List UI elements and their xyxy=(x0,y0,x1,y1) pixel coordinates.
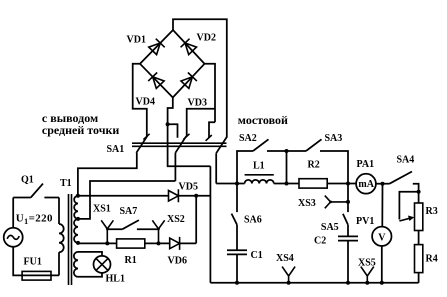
svg-text:SA7: SA7 xyxy=(120,206,138,217)
node XS3 junction xyxy=(346,200,350,204)
node XS2 stem junction xyxy=(157,241,161,245)
wire SA6 to C1 xyxy=(236,225,238,251)
node C1 on rail xyxy=(235,281,239,285)
wire VD5 cathode to negative link xyxy=(178,195,210,197)
switch SA1 lever pole2 xyxy=(175,136,186,153)
capacitor C1 xyxy=(227,250,247,254)
switch SA1 lever pole3 xyxy=(216,137,227,154)
wire PV1 to bottom rail xyxy=(381,246,383,283)
inductor L1 core xyxy=(245,174,274,176)
svg-text:XS1: XS1 xyxy=(93,204,111,215)
svg-text:SA2: SA2 xyxy=(239,133,257,144)
svg-text:R3: R3 xyxy=(426,206,438,217)
node bypass mid xyxy=(285,149,289,153)
fuse FU1 xyxy=(22,271,51,280)
node T1 bottom terminal xyxy=(76,241,80,245)
node junction below bridge xyxy=(166,122,170,126)
transformer T1 secondary upper half xyxy=(74,196,78,219)
svg-text:мостовой: мостовой xyxy=(238,113,288,127)
svg-text:VD5: VD5 xyxy=(179,182,198,193)
socket XS2 xyxy=(152,220,164,243)
wire primary top xyxy=(58,198,60,225)
contact tick pole2 right xyxy=(183,134,189,140)
svg-text:R2: R2 xyxy=(308,160,320,171)
resistor R3 xyxy=(415,203,423,231)
svg-text:HL1: HL1 xyxy=(106,274,125,285)
wire SA1 pole1 to T1 top terminal xyxy=(78,153,137,196)
svg-text:XS5: XS5 xyxy=(358,258,376,269)
svg-text:PV1: PV1 xyxy=(356,216,374,227)
wire negative bus vertical xyxy=(209,166,211,283)
node rail SA5 xyxy=(346,182,350,186)
svg-text:R4: R4 xyxy=(426,254,438,265)
contact tick pole1 xyxy=(143,134,149,140)
node PV1 on rail xyxy=(380,281,384,285)
svg-text:SA4: SA4 xyxy=(397,155,415,166)
source U1 tilde xyxy=(7,235,19,239)
node bridge diamond xyxy=(140,30,205,98)
wire bridge top riser and top rail to right vertical xyxy=(173,19,227,137)
source U1 circle xyxy=(4,228,23,247)
svg-text:XS2: XS2 xyxy=(167,214,185,225)
wire junction to pole2 left contact stub xyxy=(168,124,178,138)
wire rail L1 to R2 xyxy=(274,183,299,185)
wire rail R2 to PA1 xyxy=(327,183,356,185)
switch SA4 lever xyxy=(390,172,413,184)
socket XS1 xyxy=(101,220,113,243)
wire SA5 to C2 xyxy=(347,225,349,237)
svg-text:XS3: XS3 xyxy=(298,198,316,209)
meter PA1 xyxy=(356,174,376,194)
node T1 top terminal xyxy=(76,194,80,198)
svg-text:U1=220: U1=220 xyxy=(16,213,53,227)
switch SA1 coupling bar xyxy=(132,143,227,146)
socket XS5 xyxy=(361,267,374,283)
wire PV1 column xyxy=(381,184,383,227)
switch SA5 lever xyxy=(343,214,348,225)
diode VD5 xyxy=(169,189,179,202)
wire branch to pole2 right contact xyxy=(187,109,215,137)
svg-text:C1: C1 xyxy=(251,250,263,261)
lamp HL1 xyxy=(94,256,111,273)
contact tick pole3 xyxy=(206,135,212,141)
node T1 center tap xyxy=(76,217,80,221)
wire center tap riser xyxy=(78,181,175,219)
wire lamp loop xyxy=(78,252,102,277)
transformer T1 core xyxy=(69,194,72,285)
switch SA5 column upper wire xyxy=(347,184,349,213)
svg-text:VD2: VD2 xyxy=(197,33,216,44)
svg-text:средней точки: средней точки xyxy=(42,123,120,137)
svg-text:Q1: Q1 xyxy=(21,174,34,185)
switch SA2 lever xyxy=(253,139,269,151)
node rail mid xyxy=(285,182,289,186)
socket XS4 xyxy=(282,267,295,283)
node R3 top link xyxy=(417,190,421,194)
svg-text:C2: C2 xyxy=(314,236,326,247)
diode VD4 xyxy=(148,73,164,89)
svg-text:SA5: SA5 xyxy=(321,222,339,233)
node XS4 on rail xyxy=(287,281,291,285)
wire source loop left xyxy=(12,198,14,228)
inductor L1 xyxy=(245,180,274,184)
wire bridge left corner to SA1 pole1 fixed contact xyxy=(133,64,147,137)
node SA4 PV1 junction xyxy=(381,182,385,186)
svg-text:L1: L1 xyxy=(253,161,265,172)
wire bridge bottom vertex to junction xyxy=(168,98,173,125)
diode VD1 xyxy=(148,39,164,55)
switch SA1 lever pole1 xyxy=(136,136,147,153)
wire source to fuse xyxy=(13,247,59,276)
transformer T1 lamp winding xyxy=(74,252,78,277)
wire SA1 pole3 down to main rail xyxy=(215,153,217,183)
svg-text:V: V xyxy=(378,232,386,243)
wire R4 to bottom rail xyxy=(418,273,420,283)
svg-text:SA3: SA3 xyxy=(325,133,343,144)
transformer T1 primary winding xyxy=(59,224,64,252)
wire R1 to VD6 xyxy=(145,242,170,244)
diode VD2 xyxy=(181,39,197,55)
wire SA4 contact stub to R3 xyxy=(413,184,419,203)
switch SA7 xyxy=(107,220,158,229)
node XS5 on rail xyxy=(365,281,369,285)
socket XS3 xyxy=(325,196,348,209)
diode VD6 xyxy=(170,237,180,250)
wire T1 top terminal to VD5 anode xyxy=(78,195,169,197)
capacitor C2 xyxy=(338,236,358,240)
svg-text:VD6: VD6 xyxy=(168,256,187,267)
svg-text:SA6: SA6 xyxy=(244,215,262,226)
wire R3 to R4 xyxy=(418,231,420,245)
wire bottom rail xyxy=(210,282,418,284)
wire R3 wiper link xyxy=(399,192,418,220)
meter PV1 xyxy=(372,227,391,246)
wire VD6 cathode to riser xyxy=(180,242,197,244)
node VD5 VD6 junction xyxy=(194,194,198,198)
svg-text:FU1: FU1 xyxy=(24,257,42,268)
svg-text:XS4: XS4 xyxy=(276,253,294,264)
node rail L1 left xyxy=(235,182,239,186)
svg-text:SA1: SA1 xyxy=(107,144,125,155)
resistor R4 xyxy=(415,245,423,273)
switch SA6 lever xyxy=(232,214,238,225)
rheostat R3 wiper arrow xyxy=(399,218,410,221)
resistor R1 xyxy=(117,239,145,248)
switch SA6 column upper wire xyxy=(236,184,238,213)
node XS1 stem junction xyxy=(105,241,109,245)
svg-text:T1: T1 xyxy=(60,178,72,189)
svg-text:mA: mA xyxy=(358,179,374,190)
wire junction down to negative link xyxy=(168,124,211,166)
svg-text:VD3: VD3 xyxy=(188,98,207,109)
breaker Q1 xyxy=(13,184,59,198)
wire main rail left xyxy=(216,183,244,185)
wire branch to pole3 contact xyxy=(209,122,215,138)
svg-text:R1: R1 xyxy=(125,255,137,266)
wire T1 bottom terminal to R1 xyxy=(78,242,117,245)
diode VD3 xyxy=(180,73,196,89)
switch SA3 lever xyxy=(306,139,322,151)
wire C1 to bottom rail xyxy=(236,254,238,282)
wire rail PA1 to SA4 xyxy=(376,183,390,185)
svg-text:VD1: VD1 xyxy=(127,35,146,46)
resistor R2 xyxy=(299,179,327,188)
wire bridge right corner feed xyxy=(205,64,216,123)
wire C2 to bottom rail xyxy=(347,241,349,283)
wire SA1 pole2 down to center-tap line xyxy=(174,153,176,181)
wire bypass loop xyxy=(237,151,348,184)
svg-text:VD4: VD4 xyxy=(136,97,155,108)
wire primary bottom xyxy=(58,252,60,275)
svg-text:PA1: PA1 xyxy=(357,159,375,170)
transformer T1 secondary lower half xyxy=(74,219,78,243)
node C2 on rail xyxy=(346,281,350,285)
wire VD6 riser xyxy=(195,196,197,244)
